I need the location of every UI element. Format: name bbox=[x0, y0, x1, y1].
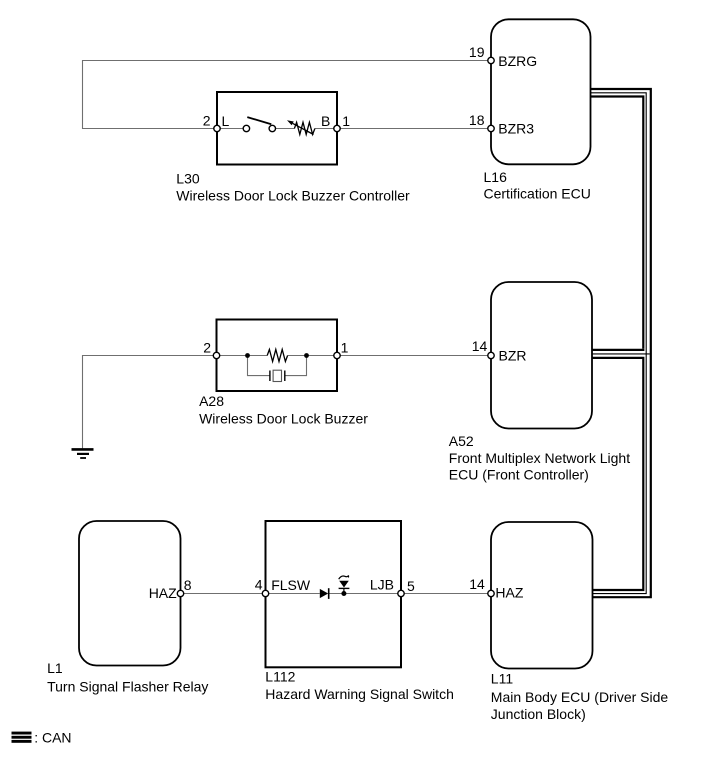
svg-text:BZRG: BZRG bbox=[498, 53, 537, 69]
svg-text:: CAN: : CAN bbox=[34, 730, 71, 746]
svg-text:L: L bbox=[222, 113, 230, 129]
svg-text:14: 14 bbox=[472, 338, 488, 354]
svg-text:Junction Block): Junction Block) bbox=[491, 706, 586, 722]
svg-text:L16: L16 bbox=[484, 169, 508, 185]
svg-text:B: B bbox=[321, 113, 330, 129]
svg-text:Certification ECU: Certification ECU bbox=[484, 186, 591, 202]
svg-text:A28: A28 bbox=[199, 393, 224, 409]
svg-text:A52: A52 bbox=[449, 433, 474, 449]
svg-text:ECU (Front Controller): ECU (Front Controller) bbox=[449, 467, 589, 483]
svg-text:19: 19 bbox=[469, 44, 485, 60]
svg-text:Front Multiplex Network Light: Front Multiplex Network Light bbox=[449, 450, 630, 466]
svg-text:Turn Signal Flasher Relay: Turn Signal Flasher Relay bbox=[47, 679, 208, 695]
svg-text:2: 2 bbox=[203, 339, 211, 355]
svg-text:L11: L11 bbox=[491, 671, 514, 687]
svg-text:HAZ: HAZ bbox=[495, 585, 523, 601]
svg-text:FLSW: FLSW bbox=[271, 577, 311, 593]
svg-text:18: 18 bbox=[469, 112, 485, 128]
svg-text:BZR: BZR bbox=[499, 348, 527, 364]
svg-text:L112: L112 bbox=[265, 669, 295, 685]
svg-text:Wireless Door Lock Buzzer: Wireless Door Lock Buzzer bbox=[199, 411, 368, 427]
svg-text:1: 1 bbox=[341, 339, 349, 355]
svg-text:HAZ: HAZ bbox=[149, 585, 177, 601]
svg-text:BZR3: BZR3 bbox=[498, 120, 534, 136]
svg-text:8: 8 bbox=[184, 577, 192, 593]
svg-text:L30: L30 bbox=[176, 170, 200, 186]
svg-text:L1: L1 bbox=[47, 660, 63, 676]
svg-text:Wireless Door Lock Buzzer Cont: Wireless Door Lock Buzzer Controller bbox=[176, 187, 410, 203]
svg-text:1: 1 bbox=[342, 113, 350, 129]
svg-text:2: 2 bbox=[203, 113, 211, 129]
svg-text:5: 5 bbox=[407, 578, 415, 594]
svg-text:14: 14 bbox=[469, 576, 485, 592]
svg-text:Hazard Warning Signal Switch: Hazard Warning Signal Switch bbox=[265, 686, 454, 702]
svg-text:Main Body ECU (Driver Side: Main Body ECU (Driver Side bbox=[491, 689, 669, 705]
svg-text:4: 4 bbox=[255, 577, 263, 593]
svg-text:LJB: LJB bbox=[370, 576, 394, 592]
